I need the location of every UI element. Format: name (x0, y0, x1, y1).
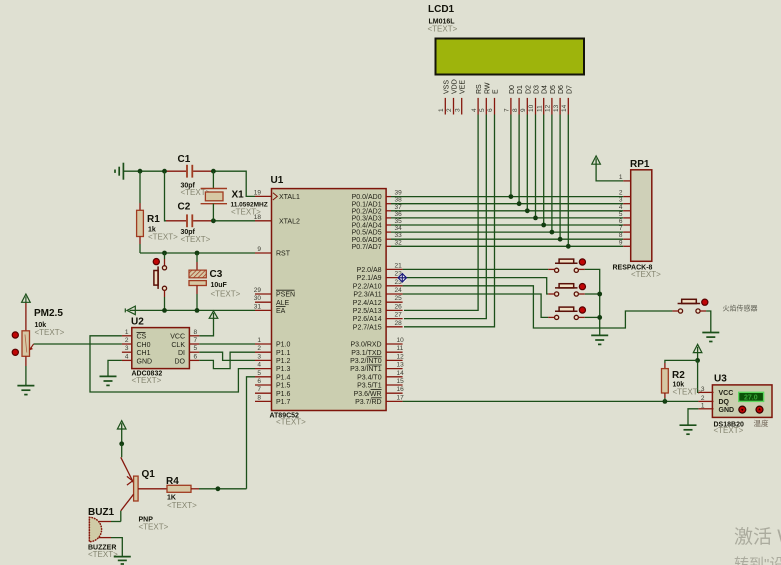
power (left arrow) at EA rail (127, 306, 135, 315)
wire crystal ground rail (123, 169, 255, 197)
button S2 (P2.1) (548, 284, 585, 297)
svg-text:<TEXT>: <TEXT> (132, 376, 162, 385)
svg-text:CH0: CH0 (137, 342, 151, 349)
svg-text:37: 37 (395, 204, 403, 211)
resistor R2 10k (662, 360, 703, 401)
wire R4 to U1 P1.4 (199, 377, 255, 491)
svg-text:<TEXT>: <TEXT> (35, 328, 65, 337)
svg-text:8: 8 (194, 329, 198, 336)
svg-text:P1.1: P1.1 (276, 350, 291, 357)
svg-text:D0: D0 (509, 85, 516, 94)
node D5/P0.5 junction (550, 230, 555, 235)
svg-text:D2: D2 (525, 85, 532, 94)
resistor pack RP1 RESPACK-8 (613, 159, 662, 279)
wire P0.5/AD5 row (391, 231, 623, 233)
svg-text:X1: X1 (232, 190, 245, 201)
wire U3 GND to ground (688, 409, 698, 425)
flame sensor button (672, 299, 708, 313)
power VCC at RP1 pin1 (592, 156, 623, 181)
svg-text:21: 21 (395, 262, 403, 269)
LCD LCD1 screen (436, 39, 585, 75)
potentiometer PM2.5 10k (12, 308, 64, 366)
wire PM2.5 wiper to U2 CH0 (34, 343, 122, 345)
ground (left) at crystal rail (115, 163, 123, 180)
svg-text:<TEXT>: <TEXT> (211, 290, 241, 299)
U1 left pin stubs (255, 196, 272, 401)
button S3 (P2.3) (548, 307, 585, 320)
button S1 (P2.0) (548, 259, 585, 273)
ground at PM2.5 (17, 386, 34, 395)
svg-text:GND: GND (719, 407, 735, 414)
wire LCD RW to U1 P2.6 (404, 115, 486, 319)
wire P0.4/AD4 row (391, 224, 623, 226)
svg-text:5: 5 (479, 108, 486, 112)
svg-text:U2: U2 (131, 317, 144, 328)
svg-text:D7: D7 (566, 85, 573, 94)
svg-text:P0.7/AD7: P0.7/AD7 (352, 244, 382, 251)
wire P0.3/AD3 row (391, 217, 623, 219)
svg-text:P3.5/T1: P3.5/T1 (357, 383, 382, 390)
wire LCD D0 vertical (510, 115, 512, 197)
resistor R4 1K (166, 476, 199, 510)
wire P2.2/A10 to flame sensor button (403, 286, 673, 328)
svg-text:RW: RW (484, 82, 491, 94)
svg-text:XTAL2: XTAL2 (279, 218, 300, 225)
wire BUZ1 bottom to ground (111, 538, 122, 556)
wire U2 GND to ground (108, 360, 122, 376)
svg-text:CS: CS (137, 334, 147, 341)
capacitor C1 30pf (178, 154, 211, 197)
svg-text:P0.1/AD1: P0.1/AD1 (352, 201, 382, 208)
wire P0.1/AD1 row (391, 203, 623, 205)
wire LCD D6 vertical (559, 115, 561, 240)
wire PM2.5 bottom to ground (25, 366, 27, 386)
svg-text:P1.4: P1.4 (276, 374, 291, 381)
svg-text:P2.2/A10: P2.2/A10 (353, 283, 382, 290)
svg-text:1: 1 (438, 108, 445, 112)
svg-text:P2.3/A11: P2.3/A11 (353, 292, 381, 299)
wire BUZ1 top to Q1 collector (111, 521, 121, 523)
svg-text:P1.3: P1.3 (276, 366, 291, 373)
svg-text:7: 7 (194, 337, 198, 344)
svg-text:2: 2 (446, 108, 453, 112)
svg-text:26: 26 (395, 303, 403, 310)
svg-text:2: 2 (619, 190, 623, 197)
IC U3 DS18B20 (698, 374, 772, 436)
svg-text:CLK: CLK (171, 342, 185, 349)
svg-text:P0.0/AD0: P0.0/AD0 (352, 194, 382, 201)
svg-text:7: 7 (619, 225, 623, 232)
svg-text:P0.4/AD4: P0.4/AD4 (352, 223, 382, 230)
svg-text:29: 29 (254, 287, 262, 294)
resistor R1 1k (137, 171, 179, 253)
svg-text:P3.1/TXD: P3.1/TXD (351, 350, 381, 357)
svg-text:P0.2/AD2: P0.2/AD2 (352, 208, 382, 215)
power VCC at U3 (693, 344, 702, 392)
svg-text:P1.2: P1.2 (276, 358, 291, 365)
wire P0.6/AD6 row (391, 238, 623, 240)
wire LCD E to U1 P2.7 (404, 115, 495, 327)
svg-text:VSS: VSS (443, 80, 450, 94)
svg-text:3: 3 (125, 345, 129, 352)
reset button (vertical) (153, 253, 166, 310)
svg-text:D3: D3 (534, 85, 541, 94)
svg-text:9: 9 (619, 239, 623, 246)
svg-text:VEE: VEE (460, 80, 467, 94)
svg-text:30: 30 (254, 295, 262, 302)
svg-text:6: 6 (619, 218, 623, 225)
svg-text:PM2.5: PM2.5 (34, 308, 63, 319)
wire P2.3/A11 to button S3 (403, 294, 549, 317)
svg-text:E: E (493, 89, 500, 94)
svg-text:36: 36 (395, 211, 403, 218)
transistor Q1 PNP (121, 444, 169, 532)
svg-text:P2.6/A14: P2.6/A14 (353, 316, 382, 323)
svg-text:4: 4 (619, 204, 623, 211)
svg-text:3: 3 (454, 108, 461, 112)
ground at buttons common (591, 335, 608, 344)
ground at U3 (680, 425, 697, 434)
svg-text:32: 32 (395, 239, 403, 246)
svg-text:<TEXT>: <TEXT> (139, 523, 169, 532)
svg-text:EA: EA (276, 308, 286, 315)
wire U2 DI to U1 P1.2 (199, 352, 255, 360)
wire U2 DO to U1 P1.1 (199, 352, 255, 368)
ground at BUZ1 (114, 557, 131, 564)
svg-text:<TEXT>: <TEXT> (631, 270, 661, 279)
svg-text:P2.1/A9: P2.1/A9 (357, 275, 382, 282)
power VCC at Q1 emitter (117, 421, 126, 446)
IC U2 ADC0832 (122, 317, 199, 386)
ground at flame sensor (702, 333, 719, 342)
svg-text:VCC: VCC (719, 390, 734, 397)
svg-text:1: 1 (257, 337, 261, 344)
svg-text:P1.7: P1.7 (276, 399, 291, 406)
svg-text:2: 2 (125, 337, 129, 344)
svg-text:35: 35 (395, 218, 403, 225)
node D1/P0.1 junction (517, 201, 522, 206)
svg-text:转到"设置"以激活 Windows。: 转到"设置"以激活 Windows。 (734, 556, 781, 565)
wire U2 CS to U1 P1.3 (long route) (90, 336, 255, 392)
svg-text:6: 6 (194, 353, 198, 360)
power VCC at PM2.5 pot (22, 294, 31, 331)
svg-text:4: 4 (257, 362, 261, 369)
svg-text:P2.4/A12: P2.4/A12 (353, 300, 382, 307)
svg-text:6: 6 (487, 108, 494, 112)
svg-text:RST: RST (276, 251, 291, 258)
wire P2.1/A9 to button S2 (403, 278, 549, 294)
svg-text:温度: 温度 (754, 418, 769, 428)
svg-text:P3.6/WR: P3.6/WR (354, 391, 382, 398)
svg-text:10: 10 (528, 104, 535, 112)
ground at U2 (100, 376, 117, 385)
svg-text:U3: U3 (714, 374, 727, 385)
node D2/P0.2 junction (525, 208, 530, 213)
svg-text:火焰传感器: 火焰传感器 (723, 304, 758, 313)
svg-text:9: 9 (520, 108, 527, 112)
wire buttons common to ground (585, 269, 602, 335)
svg-text:P3.7/RD: P3.7/RD (355, 399, 381, 406)
svg-text:P0.5/AD5: P0.5/AD5 (352, 230, 382, 237)
svg-text:U1: U1 (271, 175, 284, 186)
svg-text:38: 38 (395, 197, 403, 204)
svg-text:39: 39 (395, 190, 403, 197)
svg-text:7: 7 (504, 108, 511, 112)
buzzer BUZ1 (88, 507, 118, 559)
svg-text:D4: D4 (542, 85, 549, 94)
wire U1 P3.7/RD to U3 DQ (403, 399, 699, 404)
svg-text:RS: RS (476, 84, 483, 94)
svg-text:C1: C1 (178, 154, 191, 165)
Windows activation watermark (734, 526, 781, 565)
node D3/P0.3 junction (533, 216, 538, 221)
wire EA/VCC rail (130, 308, 256, 313)
wire LCD D1 vertical (518, 115, 520, 204)
svg-text:31: 31 (254, 303, 262, 310)
U1 pin names left (273, 193, 300, 406)
svg-text:VCC: VCC (170, 334, 185, 341)
svg-text:24: 24 (395, 287, 403, 294)
svg-text:P2.7/A15: P2.7/A15 (353, 324, 382, 331)
svg-text:<TEXT>: <TEXT> (714, 426, 744, 435)
svg-text:VDD: VDD (452, 79, 459, 94)
wire LCD D3 vertical (535, 115, 537, 218)
svg-text:<TEXT>: <TEXT> (167, 501, 197, 510)
svg-text:16: 16 (397, 386, 405, 393)
svg-text:12: 12 (397, 353, 405, 360)
svg-text:P0.3/AD3: P0.3/AD3 (352, 216, 382, 223)
svg-text:11: 11 (536, 105, 543, 112)
svg-text:P3.3/INT1: P3.3/INT1 (350, 366, 382, 373)
wire LCD RS to U1 P2.5 (404, 115, 478, 311)
svg-text:1: 1 (619, 174, 623, 181)
op-amp U1 AT89C52 body (270, 175, 387, 427)
svg-text:1: 1 (125, 329, 129, 336)
svg-text:17: 17 (397, 394, 405, 401)
svg-text:2: 2 (701, 395, 705, 402)
svg-text:CH1: CH1 (137, 350, 151, 357)
svg-text:DI: DI (178, 350, 185, 357)
svg-text:33: 33 (395, 232, 403, 239)
svg-text:GND: GND (137, 358, 153, 365)
svg-text:P3.0/RXD: P3.0/RXD (350, 342, 381, 349)
svg-text:LCD1: LCD1 (428, 4, 455, 15)
wire LCD D2 vertical (526, 115, 528, 211)
node D6/P0.6 junction (558, 237, 563, 242)
U1 pin names right (350, 194, 382, 406)
svg-text:25: 25 (395, 295, 403, 302)
svg-text:5: 5 (257, 370, 261, 377)
wire P0.0/AD0 bus row to RP1 pin2 (391, 196, 623, 198)
wire C2 branch (165, 171, 256, 223)
svg-text:2: 2 (257, 345, 261, 352)
svg-text:R2: R2 (672, 370, 685, 381)
svg-text:D5: D5 (550, 85, 557, 94)
svg-text:ALE: ALE (276, 300, 290, 307)
svg-text:10uF: 10uF (211, 282, 228, 289)
wire flame sensor to ground (706, 311, 711, 333)
LCD LCD1 pins (438, 79, 573, 114)
U1 pin numbers left (254, 189, 262, 401)
svg-text:13: 13 (553, 104, 560, 112)
node D0/P0.0 junction (509, 194, 514, 199)
svg-text:1: 1 (701, 402, 705, 409)
svg-text:P1.6: P1.6 (276, 391, 291, 398)
cursor crosshair on P2.1 wire (398, 273, 407, 282)
crystal X1 11.0592MHZ (201, 171, 268, 221)
wire LCD D5 vertical (551, 115, 553, 233)
svg-text:13: 13 (397, 362, 405, 369)
svg-text:3: 3 (619, 197, 623, 204)
svg-text:<TEXT>: <TEXT> (231, 208, 261, 217)
svg-text:DO: DO (175, 358, 186, 365)
U1 pin numbers right (395, 190, 405, 402)
svg-text:15: 15 (397, 378, 405, 385)
wire U2 CLK to U1 P1.0 (199, 343, 255, 345)
svg-text:R4: R4 (166, 476, 179, 487)
wire P0.7/AD7 row (391, 245, 623, 247)
svg-text:P3.4/T0: P3.4/T0 (357, 374, 382, 381)
svg-text:C2: C2 (178, 202, 191, 213)
svg-text:D1: D1 (517, 85, 524, 94)
svg-text:28: 28 (395, 320, 403, 327)
svg-text:DQ: DQ (719, 399, 730, 406)
wire P0.2/AD2 row (391, 210, 623, 212)
svg-text:P2.0/A8: P2.0/A8 (357, 267, 382, 274)
svg-text:5: 5 (619, 211, 623, 218)
svg-text:<TEXT>: <TEXT> (428, 25, 458, 34)
svg-text:D6: D6 (558, 85, 565, 94)
wire LCD D7 vertical (567, 115, 569, 247)
svg-text:12: 12 (545, 104, 552, 112)
svg-text:14: 14 (561, 104, 568, 112)
svg-text:27: 27 (395, 312, 403, 319)
svg-text:8: 8 (257, 394, 261, 401)
svg-text:19: 19 (254, 189, 262, 196)
wire LCD D4 vertical (543, 115, 545, 226)
node D7/P0.7 junction (566, 244, 571, 249)
svg-text:P0.6/AD6: P0.6/AD6 (352, 237, 382, 244)
svg-text:<TEXT>: <TEXT> (88, 550, 118, 559)
svg-text:XTAL1: XTAL1 (279, 194, 300, 201)
node D4/P0.4 junction (541, 223, 546, 228)
svg-text:R1: R1 (147, 214, 160, 225)
svg-text:激活 Windows: 激活 Windows (734, 526, 781, 548)
svg-text:14: 14 (397, 370, 405, 377)
svg-text:Q1: Q1 (142, 469, 156, 480)
svg-text:4: 4 (471, 108, 478, 112)
svg-text:27.0: 27.0 (744, 395, 758, 402)
svg-text:8: 8 (619, 232, 623, 239)
svg-text:<TEXT>: <TEXT> (276, 418, 306, 427)
svg-text:PSEN: PSEN (276, 292, 295, 299)
svg-text:BUZ1: BUZ1 (88, 507, 115, 518)
svg-text:P3.2/INT0: P3.2/INT0 (350, 358, 382, 365)
svg-text:10: 10 (397, 337, 405, 344)
power VCC arrow at U2 VCC branch (199, 311, 218, 336)
U1 right pin stubs (386, 197, 403, 402)
svg-text:11: 11 (397, 345, 404, 352)
svg-text:9: 9 (257, 246, 261, 253)
wire P2.0/A8 to button S1 (403, 268, 549, 270)
svg-text:3: 3 (257, 353, 261, 360)
svg-text:7: 7 (257, 386, 261, 393)
svg-text:C3: C3 (210, 269, 223, 280)
svg-text:RP1: RP1 (630, 159, 650, 170)
svg-text:34: 34 (395, 225, 403, 232)
svg-text:<TEXT>: <TEXT> (148, 232, 178, 241)
svg-text:P2.5/A13: P2.5/A13 (353, 308, 382, 315)
svg-text:<TEXT>: <TEXT> (181, 235, 211, 244)
capacitor C3 10uF (189, 253, 241, 310)
svg-text:4: 4 (125, 353, 129, 360)
svg-text:<TEXT>: <TEXT> (673, 388, 703, 397)
wire RST row (140, 251, 255, 256)
svg-text:3: 3 (701, 386, 705, 393)
svg-text:5: 5 (194, 345, 198, 352)
svg-text:P1.5: P1.5 (276, 383, 291, 390)
capacitor C2 30pf (178, 202, 211, 244)
svg-text:6: 6 (257, 378, 261, 385)
svg-text:8: 8 (512, 108, 519, 112)
svg-text:P1.0: P1.0 (276, 342, 291, 349)
LCD LCD1 labels (428, 4, 458, 34)
